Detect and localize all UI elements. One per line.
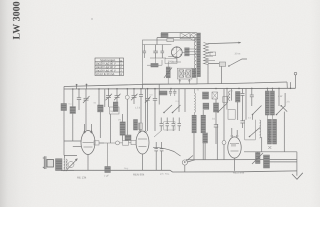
- wire tube drop: [172, 57, 181, 62]
- node ring grid: [116, 141, 120, 145]
- coil L2: [192, 89, 196, 160]
- trimmer C6: [83, 89, 90, 130]
- transformer T1 core: [197, 33, 201, 77]
- trimmer C7: [106, 89, 113, 107]
- wire tap A: [208, 51, 213, 53]
- wire tube1 grid line: [64, 140, 82, 142]
- wire box inner top: [143, 44, 172, 46]
- wire tap C: [204, 59, 216, 61]
- box B2 open: [245, 120, 256, 140]
- wire rail1 top: [64, 82, 287, 87]
- wire drop x145: [145, 89, 147, 125]
- wire drop x217: [216, 124, 218, 160]
- coil L4: [203, 103, 209, 109]
- capacitor C20: [154, 142, 158, 158]
- svg-text:LW 3000: LW 3000: [12, 1, 23, 39]
- rectifier element X1: [179, 70, 184, 77]
- resistor R3: [167, 38, 174, 41]
- wire switch drop: [221, 66, 223, 83]
- wire drop x272: [271, 88, 273, 91]
- wire top row: [157, 37, 197, 39]
- wire grid chain: [99, 142, 123, 144]
- wire v2 drop: [87, 155, 89, 171]
- capacitor column right of tube C3c: [185, 54, 190, 56]
- capacitor C12: [166, 118, 170, 132]
- lamp circle: [190, 34, 197, 41]
- wire v4 bottom: [234, 158, 236, 171]
- wire enclosure drop left: [142, 84, 144, 89]
- coil L6 bumps: [260, 120, 261, 138]
- wire feeder x185: [184, 89, 186, 112]
- wire P1 top: [168, 57, 177, 67]
- wire v3 top leads: [140, 123, 146, 131]
- rectifier hatched bar: [192, 69, 195, 78]
- junction dots rail2: [72, 88, 291, 90]
- rectifier element X2: [186, 70, 191, 77]
- transformer T1 primary winding: [194, 38, 196, 76]
- wire caps drop: [156, 158, 161, 170]
- switch S7: [249, 128, 260, 138]
- trimmer C6a: [145, 89, 151, 131]
- rectifier node rings: [179, 73, 190, 82]
- capacitor C11: [160, 118, 164, 132]
- potentiometer P1: [164, 67, 172, 78]
- resistor R7b vertical: [134, 120, 138, 131]
- wire bottom rail: [61, 170, 297, 172]
- resistor R2: [161, 33, 168, 38]
- resistor R1: [151, 63, 158, 67]
- wire drop x285: [284, 93, 286, 107]
- wire antenna terminal lead: [295, 75, 297, 88]
- node small circle: [125, 95, 129, 99]
- output transformer T2: [56, 159, 63, 171]
- svg-text:RE 134: RE 134: [77, 175, 87, 179]
- transformer T2 winding b: [66, 159, 67, 171]
- capacitor column right of tube C3a: [185, 48, 190, 50]
- wire earth line: [208, 64, 222, 67]
- node lamp small: [222, 141, 226, 145]
- node antenna terminal ring: [294, 72, 297, 75]
- label V1: [165, 59, 177, 64]
- capacitor C21: [160, 142, 164, 158]
- switch S1 lever: [228, 59, 247, 67]
- capacitor C15: [214, 99, 218, 144]
- svg-text:50: 50: [94, 102, 97, 105]
- wire S7 drop: [261, 137, 263, 152]
- tube V2 grid cap: [94, 141, 104, 145]
- switch S3: [172, 105, 181, 113]
- box small x225: [223, 97, 228, 103]
- wire drop x159: [158, 84, 160, 104]
- wire drop x279: [278, 88, 280, 106]
- wire R1 leads: [147, 60, 162, 65]
- capacitor column right of tube C3b: [185, 51, 190, 53]
- wire v3 drop: [142, 154, 144, 170]
- svg-text:2 µF: 2 µF: [104, 175, 109, 178]
- wire right vertical: [296, 152, 298, 176]
- capacitor C1: [143, 45, 146, 58]
- wire zigzag drop: [207, 64, 209, 84]
- switch S5: [276, 106, 285, 115]
- cathode circle: [68, 162, 74, 168]
- resistor R5: [98, 105, 104, 112]
- wire mid rail: [186, 159, 297, 161]
- capacitor C13: [172, 118, 176, 132]
- svg-text:0,1: 0,1: [69, 103, 73, 106]
- wire right drop: [283, 112, 285, 152]
- wire tube1 line2: [73, 146, 82, 148]
- wire L1 bottom lead: [110, 114, 112, 143]
- wire drop x227: [226, 89, 228, 110]
- caps frame: [164, 122, 175, 130]
- wire stub a: [76, 84, 78, 89]
- capacitor C3: [161, 45, 165, 58]
- svg-text:REN 904: REN 904: [133, 172, 145, 176]
- svg-text:2 k: 2 k: [287, 101, 291, 104]
- wire drop x107.5: [107, 143, 109, 167]
- resistor R9: [214, 103, 219, 112]
- wire P1 drop: [167, 78, 169, 84]
- resistor hatched right: [264, 155, 270, 168]
- wire tap B: [208, 55, 213, 57]
- speaker LS: [43, 156, 54, 169]
- wire speaker top: [64, 155, 77, 158]
- tube V4: [228, 135, 241, 158]
- switch S3b: [217, 103, 227, 112]
- capacitor pair right of R8: [169, 89, 177, 96]
- wire drop x267: [266, 88, 268, 91]
- wire IF link: [267, 115, 272, 119]
- tap box: [210, 52, 216, 56]
- resistor R10: [236, 92, 241, 121]
- voltage table text: [96, 59, 123, 76]
- svg-text:30 m: 30 m: [235, 53, 241, 56]
- wire speaker bottom: [61, 169, 74, 171]
- resistor under rail A: [203, 92, 209, 99]
- svg-text:0,2: 0,2: [248, 117, 252, 120]
- svg-text:Reg.: Reg.: [124, 167, 129, 170]
- box B1: [228, 110, 235, 120]
- svg-text:0,5: 0,5: [150, 94, 154, 97]
- rectifier box: [177, 68, 192, 79]
- voltage table: [95, 58, 124, 76]
- speck: [91, 18, 92, 19]
- coil L8: [268, 130, 271, 142]
- svg-text:1,5 k: 1,5 k: [135, 107, 141, 110]
- coupling box grid: [123, 141, 129, 146]
- switch S4: [252, 106, 262, 120]
- wire drop x122.6: [122, 114, 124, 141]
- resistor R7 vertical: [120, 122, 125, 135]
- trimmer C9: [131, 89, 138, 104]
- capacitor C5: [77, 89, 81, 110]
- IF transformer upper left: [265, 91, 269, 115]
- wire antenna arrow: [208, 42, 241, 44]
- capacitor C4 box: [180, 33, 190, 39]
- trimmer C8: [114, 89, 121, 107]
- wire drop x127: [126, 89, 128, 135]
- wire drop x290 upper: [290, 82, 292, 88]
- wire drop x231: [231, 89, 233, 101]
- enclosure box top block: [143, 40, 198, 84]
- wire feeder x246: [245, 88, 247, 119]
- IF transformer upper right: [270, 91, 274, 115]
- switch S2: [163, 105, 172, 113]
- diag wire to caps: [154, 131, 162, 138]
- wire rail1 jog: [286, 82, 288, 88]
- wire rectifier drops: [180, 79, 190, 84]
- capacitor C2: [153, 45, 158, 58]
- wire v4 drops: [232, 128, 237, 135]
- IF transformer lower left: [268, 119, 272, 144]
- capacitor C18: [240, 121, 244, 128]
- wire box inner bottom: [150, 58, 166, 63]
- capacitor C17: [250, 88, 254, 106]
- capacitor C16: [241, 89, 245, 121]
- switch S6 mains: [280, 105, 287, 112]
- switch S1 box: [219, 62, 225, 66]
- transformer T2 winding: [64, 159, 65, 171]
- tube V1: [171, 47, 182, 58]
- capacitor box above tube2: [139, 123, 143, 130]
- wire feeder x179: [178, 89, 180, 112]
- label misc values: [69, 89, 252, 176]
- svg-text:Uf 4,0 Ik 30 mA: Uf 4,0 Ik 30 mA: [96, 73, 115, 76]
- wire drop x224b: [223, 145, 225, 160]
- wire right block mid: [270, 161, 297, 163]
- tube V1 pins: [172, 47, 182, 59]
- svg-text:RES 964: RES 964: [233, 171, 245, 175]
- grid arrow symbol: [67, 158, 78, 169]
- wire drop x99 lower: [99, 112, 101, 138]
- wire top row upper: [161, 32, 197, 34]
- coil L5: [229, 91, 230, 101]
- wire tube to column: [182, 49, 197, 55]
- tube V2: [81, 130, 95, 155]
- wire tube V2 top leads: [85, 124, 92, 131]
- wire drop x99: [98, 89, 100, 105]
- fuse box bottom: [105, 167, 111, 173]
- capacitor C10: [139, 89, 143, 131]
- svg-text:geh. Reg.: geh. Reg.: [160, 173, 170, 176]
- trimmer C6b: [153, 89, 157, 131]
- wire drop x224: [223, 89, 225, 141]
- resistor R6: [113, 102, 118, 112]
- wire drop x205: [204, 143, 206, 160]
- IF transformer lower right: [273, 119, 277, 144]
- resistor R4: [70, 107, 76, 114]
- svg-text:0,1: 0,1: [212, 118, 216, 121]
- svg-text:2M: 2M: [118, 119, 121, 122]
- resistor R7c small: [125, 135, 131, 141]
- resistor R8: [159, 91, 167, 95]
- wire rail2: [64, 87, 296, 90]
- wire stub b: [86, 84, 88, 89]
- wire left edge vertical: [63, 87, 65, 156]
- transformer T1 secondary zigzag: [204, 43, 209, 65]
- capacitor C14: [178, 118, 182, 132]
- resistor R4a: [61, 104, 67, 111]
- wire pot top: [257, 151, 259, 154]
- coil L3: [201, 110, 206, 160]
- ground arrow: [292, 173, 303, 180]
- wire top link: [156, 38, 158, 45]
- wire drop x104: [104, 89, 106, 107]
- svg-text:1W: 1W: [230, 90, 234, 93]
- potentiometer P2: [252, 153, 263, 165]
- wire drop x72.8 lower: [72, 114, 74, 142]
- wire right block top: [244, 151, 297, 153]
- wire drop x72.8: [72, 89, 74, 107]
- coil box L1: [109, 107, 119, 114]
- switch S8: [153, 147, 195, 172]
- vertical res x205: [203, 133, 208, 143]
- capacitor box under rail B: [212, 92, 218, 99]
- tube V3: [136, 131, 149, 154]
- tube V3 grid cap: [129, 140, 137, 144]
- plus mark: [268, 146, 271, 149]
